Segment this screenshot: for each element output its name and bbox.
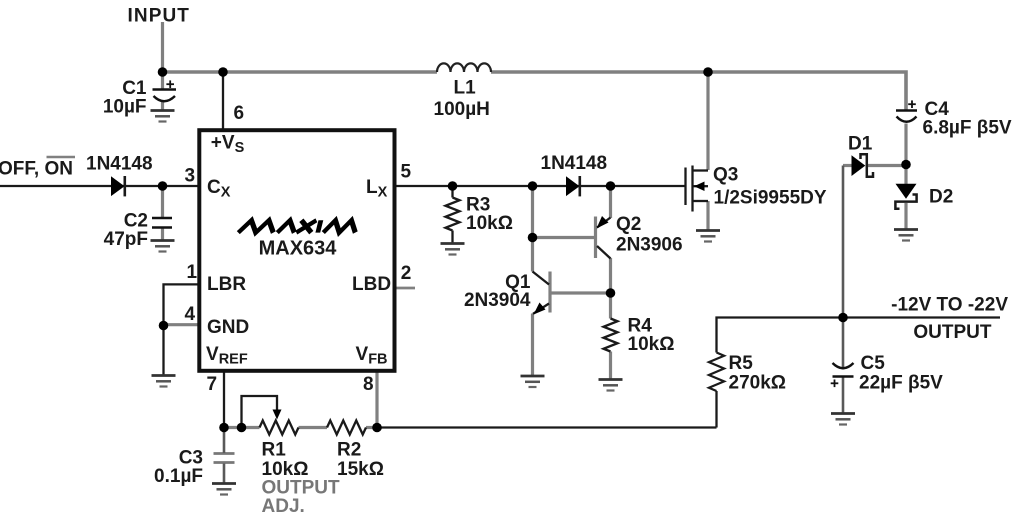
svg-text:100µH: 100µH	[434, 99, 490, 120]
svg-text:MAX634: MAX634	[259, 238, 338, 260]
svg-text:1: 1	[187, 262, 198, 283]
svg-text:10µF: 10µF	[103, 97, 147, 118]
svg-text:2N3904: 2N3904	[464, 290, 531, 311]
svg-text:D1: D1	[848, 134, 873, 155]
svg-text:4: 4	[185, 304, 196, 325]
svg-text:22µF β5V: 22µF β5V	[859, 373, 943, 394]
svg-text:6: 6	[234, 103, 245, 124]
svg-text:15kΩ: 15kΩ	[337, 459, 384, 480]
svg-text:R5: R5	[729, 353, 754, 374]
svg-text:LBD: LBD	[352, 274, 391, 295]
svg-text:6.8µF β5V: 6.8µF β5V	[923, 118, 1012, 139]
svg-text:10kΩ: 10kΩ	[628, 334, 675, 355]
svg-text:7: 7	[207, 374, 218, 395]
svg-text:2N3906: 2N3906	[616, 235, 683, 256]
svg-text:0.1µF: 0.1µF	[154, 466, 203, 487]
svg-text:L1: L1	[454, 78, 477, 99]
svg-text:C5: C5	[861, 353, 886, 374]
svg-text:VREF: VREF	[206, 344, 248, 368]
svg-text:ADJ.: ADJ.	[262, 496, 305, 517]
svg-text:INPUT: INPUT	[128, 6, 191, 27]
svg-text:LX: LX	[366, 177, 388, 201]
svg-text:47pF: 47pF	[104, 229, 148, 250]
svg-text:GND: GND	[207, 317, 249, 338]
svg-text:5: 5	[401, 162, 412, 183]
svg-text:OFF, ON: OFF, ON	[0, 159, 73, 180]
svg-text:LBR: LBR	[207, 274, 246, 295]
svg-text:+VS: +VS	[211, 132, 245, 156]
svg-text:Q2: Q2	[616, 214, 641, 235]
svg-text:1N4148: 1N4148	[541, 153, 608, 174]
svg-text:1N4148: 1N4148	[86, 154, 153, 175]
svg-text:R2: R2	[337, 440, 361, 461]
svg-text:270kΩ: 270kΩ	[729, 373, 787, 394]
svg-text:D2: D2	[929, 187, 953, 208]
svg-text:R1: R1	[262, 440, 287, 461]
svg-text:Q3: Q3	[713, 165, 738, 186]
svg-text:10kΩ: 10kΩ	[466, 213, 513, 234]
svg-text:OUTPUT: OUTPUT	[913, 322, 992, 343]
svg-text:8: 8	[363, 374, 374, 395]
svg-text:1/2Si9955DY: 1/2Si9955DY	[714, 188, 827, 209]
svg-text:CX: CX	[207, 177, 231, 201]
svg-text:3: 3	[185, 166, 196, 187]
svg-text:2: 2	[401, 263, 412, 284]
svg-text:VFB: VFB	[356, 344, 388, 368]
svg-text:-12V TO -22V: -12V TO -22V	[891, 295, 1008, 316]
